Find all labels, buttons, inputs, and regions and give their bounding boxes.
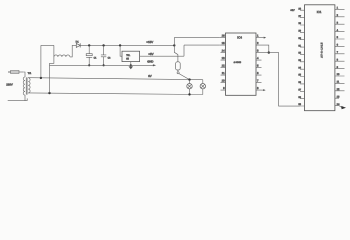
svg-text:14: 14 <box>337 103 340 106</box>
svg-text:IC4: IC4 <box>237 36 242 40</box>
pin stubs IC4 left <box>220 38 226 91</box>
svg-text:3: 3 <box>257 50 259 53</box>
node C1 top <box>88 44 90 46</box>
switch S1 <box>177 70 189 80</box>
inductor L1 <box>54 55 70 57</box>
transformer core <box>25 77 28 94</box>
svg-text:11: 11 <box>222 72 225 75</box>
pin stubs IC1 left <box>300 10 305 106</box>
svg-text:C2: C2 <box>108 57 112 60</box>
node C1 bottom <box>88 64 90 66</box>
svg-text:4: 4 <box>257 57 259 60</box>
svg-text:Tr1: Tr1 <box>28 72 32 75</box>
svg-text:0V: 0V <box>148 74 152 78</box>
ground arrow GND rail end <box>153 64 156 66</box>
wire rail down to fuse F2 <box>174 45 178 61</box>
svg-text:D1: D1 <box>76 40 80 43</box>
wire riser from secondary top to +15V rail <box>40 45 42 78</box>
op-amp IC4 A/D converter box <box>226 33 257 95</box>
svg-text:230V: 230V <box>6 82 13 86</box>
svg-text:16: 16 <box>222 35 225 38</box>
svg-text:8: 8 <box>257 87 259 90</box>
node regulator input takeoff <box>119 44 121 46</box>
fuse F2 <box>176 62 181 70</box>
wire IC4 pin 8 stub <box>262 89 266 91</box>
svg-text:IC1: IC1 <box>317 10 322 14</box>
svg-text:+15V: +15V <box>146 40 153 44</box>
node secondary top junction <box>40 77 42 79</box>
svg-text:9: 9 <box>223 87 225 90</box>
wire IC4 pin 3 to IC1 <box>262 53 300 107</box>
node lamp La1 bottom <box>188 93 190 95</box>
ground symbol below regulator <box>129 66 134 69</box>
pin numbers IC4 left <box>222 35 226 90</box>
node C2 top <box>102 44 104 46</box>
wire fuse to transformer primary top <box>23 72 25 77</box>
svg-text:6: 6 <box>257 72 259 75</box>
diode D1 <box>76 40 81 47</box>
svg-text:C1: C1 <box>94 57 98 60</box>
wire inductor left tail step down to bottom rail <box>50 57 54 93</box>
lamp La2 <box>200 80 205 95</box>
wire primary bottom to mains neutral terminal <box>8 95 28 101</box>
wire +15V rail <box>80 44 174 46</box>
transformer Tr1 primary winding <box>23 77 25 95</box>
svg-text:13: 13 <box>337 95 340 98</box>
wire regulator ground lead <box>130 62 132 66</box>
wire bottom rail (GND) <box>50 64 154 66</box>
wire 0V line from secondary top to lamps (sloped) <box>28 78 203 80</box>
wire rail to regulator input <box>120 45 122 56</box>
node regulator ground on rail <box>130 64 132 66</box>
svg-text:10: 10 <box>222 80 225 83</box>
svg-text:05: 05 <box>126 57 129 60</box>
svg-text:si 4060: si 4060 <box>234 61 242 64</box>
ground arrow at IC1 pin 14 <box>339 106 346 110</box>
capacitor C2 <box>101 45 111 65</box>
lamp La1 <box>187 80 192 95</box>
transformer Tr1 secondary winding <box>28 78 30 93</box>
wire inductor right to diode level <box>70 45 76 57</box>
node +15V rail lamp takeoff <box>173 44 175 46</box>
svg-text:2: 2 <box>257 42 259 45</box>
capacitor C1 electrolytic <box>86 45 97 65</box>
svg-text:1: 1 <box>257 35 259 38</box>
wire bottom return line from secondary bottom to lamps (sloped) <box>28 93 203 95</box>
svg-text:12: 12 <box>222 65 225 68</box>
svg-text:AY-3-1015: AY-3-1015 <box>320 42 323 58</box>
wire IC4 pin 2 to pin 3 net <box>262 45 269 53</box>
wire mains live input <box>8 71 11 73</box>
pin stubs IC4 right <box>256 38 262 91</box>
wire IC4 pin 1 arrow <box>262 37 267 39</box>
node C2 bottom <box>103 64 105 66</box>
node bottom rail drop junction <box>48 92 50 94</box>
pin numbers IC1 right <box>337 7 340 106</box>
svg-text:+5V: +5V <box>290 9 295 12</box>
svg-text:5: 5 <box>257 65 259 68</box>
svg-text:15: 15 <box>222 42 225 45</box>
wire +5V from regulator output to IC4 pin 15 <box>140 45 220 56</box>
wire +15V rail to IC4 pin 16 <box>174 38 220 46</box>
wire top rail start <box>41 44 54 46</box>
pin numbers IC4 right <box>257 35 259 90</box>
node lamp feed on 0V line <box>188 78 190 80</box>
svg-text:+5V: +5V <box>148 52 153 56</box>
fuse F1 <box>8 71 23 74</box>
node pins 2-3 junction <box>268 51 270 53</box>
svg-text:GND: GND <box>147 60 153 64</box>
svg-text:14: 14 <box>222 50 225 53</box>
pin stubs IC1 right <box>335 9 345 105</box>
svg-text:13: 13 <box>222 57 225 60</box>
pin numbers IC1 left <box>298 7 301 106</box>
wire jog down to inductor <box>53 45 55 57</box>
svg-text:7: 7 <box>257 80 259 83</box>
connector IC1 box <box>305 5 335 111</box>
voltage regulator IC2 78L05 <box>122 51 140 61</box>
